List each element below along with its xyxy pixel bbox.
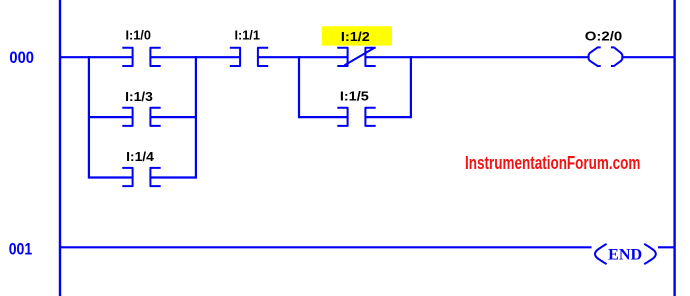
NC slash for I:1/2 [345, 48, 375, 66]
branch 1 row 3 wire: left to contact I:1/4 [89, 176, 133, 178]
svg-text:I:1/5: I:1/5 [340, 88, 369, 103]
svg-text:000: 000 [9, 48, 34, 67]
svg-text:O:2/0: O:2/0 [585, 28, 623, 43]
svg-text:I:1/2: I:1/2 [341, 29, 370, 44]
rung 000 wire: I:1/0 to I:1/1 [150, 56, 240, 58]
svg-text:I:1/0: I:1/0 [125, 28, 151, 43]
rung 000 wire: coil to right rail [622, 56, 675, 58]
branch 1 left vertical wire [88, 56, 90, 179]
branch 2 left vertical wire [298, 56, 300, 118]
rung 000 wire: I:1/1 to I:1/2 [258, 56, 348, 58]
left power rail [59, 0, 61, 296]
branch 1 row 2 wire: I:1/3 to right vertical [150, 116, 196, 118]
contact I:1/2 (XIO, normally closed) [337, 48, 375, 66]
right power rail [673, 0, 675, 296]
rung 000 wire: I:1/2 to coil O:2/0 [366, 56, 589, 58]
rung 001 wire: rail to END coil [60, 246, 592, 248]
contact I:1/1 (XIC) [230, 48, 268, 66]
branch 2 row 2 wire: I:1/5 to right vertical [366, 116, 411, 118]
branch 2 row 2 wire: left to contact I:1/5 [299, 116, 348, 118]
END coil left parenthesis [595, 244, 607, 264]
svg-text:I:1/4: I:1/4 [126, 149, 155, 164]
svg-text:InstrumentationForum.com: InstrumentationForum.com [465, 153, 640, 173]
branch 2 right vertical wire [410, 56, 412, 118]
branch 1 row 2 wire: left to contact I:1/3 [89, 116, 133, 118]
svg-text:END: END [608, 246, 642, 263]
rung 000 wire: rail to contact I:1/0 [60, 56, 133, 58]
branch 1 right vertical wire [195, 56, 197, 179]
highlight box for I:1/2 [322, 26, 392, 45]
contact I:1/4 (XIC) [122, 168, 160, 186]
svg-text:I:1/3: I:1/3 [125, 89, 153, 104]
branch 1 row 3 wire: I:1/4 to right vertical [150, 176, 196, 178]
contact I:1/3 (XIC) [122, 108, 160, 126]
svg-text:I:1/1: I:1/1 [234, 28, 260, 43]
coil O:2/0 (OTE) [589, 47, 623, 66]
contact I:1/0 (XIC) [122, 48, 160, 66]
contact I:1/5 (XIC) [337, 108, 375, 126]
rung 001 wire: END coil to right rail [658, 246, 675, 248]
END coil right parenthesis [644, 244, 656, 264]
svg-text:001: 001 [9, 239, 33, 258]
